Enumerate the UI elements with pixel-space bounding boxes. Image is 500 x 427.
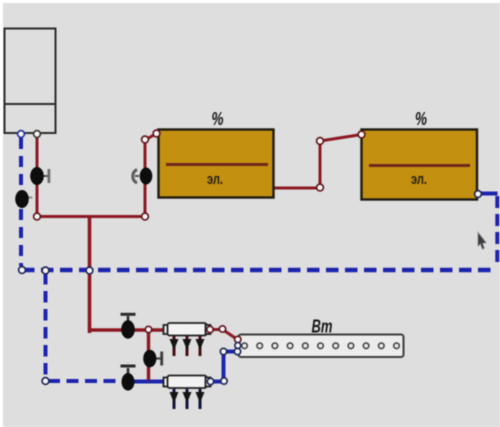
svg-text:%: % (415, 109, 427, 129)
svg-text:эл.: эл. (207, 171, 223, 188)
svg-text:Bm: Bm (312, 317, 333, 337)
svg-text:%: % (212, 109, 224, 129)
svg-text:эл.: эл. (411, 171, 427, 188)
